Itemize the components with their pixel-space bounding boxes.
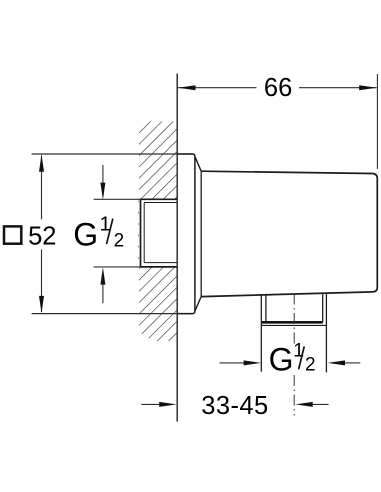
flange top extension line: [32, 153, 194, 155]
inner fraction slash: [107, 219, 113, 243]
svg-text:G: G: [269, 342, 294, 378]
dim 66 right extension line: [376, 74, 378, 169]
cone top edge: [195, 157, 201, 171]
dim 66 left arrowhead: [178, 85, 196, 90]
dim 52 bottom arrowhead: [39, 296, 44, 313]
square symbol: [4, 226, 21, 243]
outlet thick bottom line: [262, 321, 323, 324]
cone-body junction line: [200, 171, 202, 296]
inner G1/2 bottom extension line: [94, 266, 141, 268]
svg-text:2: 2: [305, 355, 316, 376]
dim 66 line right segment: [299, 87, 377, 89]
inner G1/2 top arrowhead: [100, 183, 105, 200]
bottom G1/2 left arrowhead: [244, 360, 261, 365]
outlet inner left line: [265, 295, 267, 322]
connector inner left line: [143, 203, 145, 263]
inner G1/2 top extension line: [94, 198, 141, 200]
body outline: [201, 171, 377, 296]
outlet outer left line + ext: [260, 295, 262, 372]
svg-text:33-45: 33-45: [201, 392, 268, 420]
svg-text:G: G: [73, 216, 98, 252]
svg-text:66: 66: [264, 74, 292, 102]
dim 52 line upper segment: [41, 156, 43, 220]
bottom G1/2 left arrow tail: [220, 362, 244, 364]
wall surface line: [176, 74, 178, 422]
svg-text:52: 52: [28, 222, 56, 250]
dim 33-45 right arrow tail: [313, 403, 329, 405]
connector outer outline: [141, 199, 178, 267]
cone bottom edge: [195, 297, 201, 311]
dim 52 line lower segment: [41, 250, 43, 313]
dim 33-45 left arrowhead: [159, 402, 176, 407]
centerline lower: [293, 375, 295, 416]
dim 52 top arrowhead: [39, 154, 44, 171]
svg-text:2: 2: [114, 231, 125, 252]
bottom G1/2 right arrow tail: [345, 362, 361, 364]
dim 66 right arrowhead: [359, 85, 377, 90]
outlet inner right line: [322, 294, 324, 322]
bottom G1/2 right arrowhead: [328, 360, 345, 365]
flange bottom extension line: [32, 313, 194, 315]
centerline upper: [293, 294, 295, 344]
inner G1/2 bottom arrowhead: [100, 267, 105, 284]
flange outline: [177, 154, 195, 314]
dim 33-45 right arrowhead: [295, 402, 312, 407]
wall hatch: [138, 122, 177, 342]
dim 66 line left segment: [178, 87, 256, 89]
outlet thin bottom line: [261, 324, 327, 326]
inner G1/2 bottom arrow line: [102, 284, 104, 303]
bottom fraction slash: [299, 347, 304, 369]
dim 33-45 left arrow tail: [141, 403, 159, 405]
outlet outer right line + ext: [325, 294, 327, 372]
connector inner top line: [144, 202, 177, 204]
connector inner bottom line: [144, 262, 177, 264]
inner G1/2 top arrow line: [102, 165, 104, 183]
